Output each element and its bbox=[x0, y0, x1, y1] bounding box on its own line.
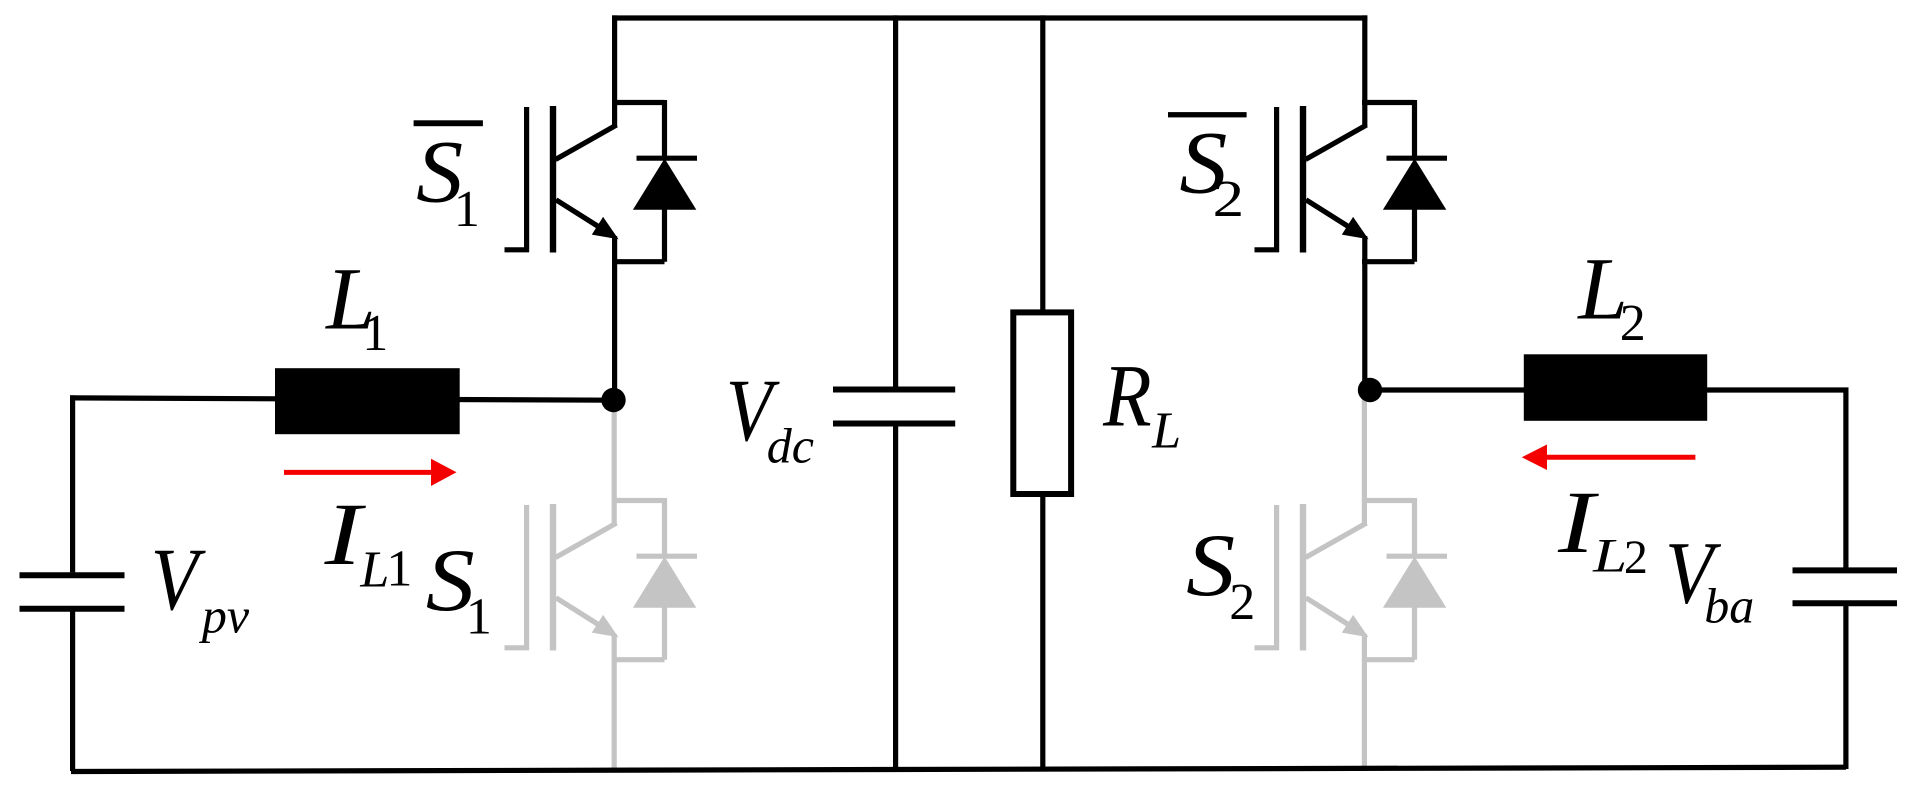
svg-text:S: S bbox=[1186, 517, 1235, 615]
svg-text:pv: pv bbox=[199, 587, 250, 643]
svg-text:L: L bbox=[359, 541, 389, 598]
svg-text:1: 1 bbox=[466, 589, 492, 646]
svg-text:R: R bbox=[1102, 348, 1151, 446]
svg-text:2: 2 bbox=[1229, 574, 1255, 631]
svg-text:V: V bbox=[151, 531, 206, 629]
svg-text:dc: dc bbox=[767, 418, 814, 474]
svg-text:ba: ba bbox=[1704, 578, 1754, 634]
svg-text:1: 1 bbox=[386, 541, 412, 598]
svg-text:L: L bbox=[1592, 530, 1627, 583]
svg-text:2: 2 bbox=[1213, 171, 1245, 228]
svg-text:2: 2 bbox=[1624, 531, 1648, 584]
svg-text:L: L bbox=[1151, 402, 1181, 459]
svg-text:2: 2 bbox=[1620, 295, 1646, 352]
svg-text:1: 1 bbox=[454, 181, 480, 238]
svg-text:1: 1 bbox=[362, 305, 388, 362]
